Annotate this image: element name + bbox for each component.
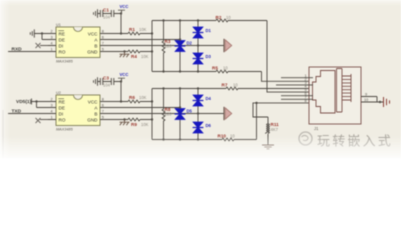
watermark logo <box>299 132 312 145</box>
svg-text:3: 3 <box>51 35 53 39</box>
svg-text:6: 6 <box>102 103 104 107</box>
wire row3 (B) <box>108 45 198 47</box>
svg-text:2: 2 <box>51 97 53 101</box>
svg-text:120: 120 <box>165 112 173 117</box>
junction row4/V1 (bottom) <box>151 118 153 120</box>
wire RJ45 pin8 net <box>253 103 313 117</box>
svg-text:10K: 10K <box>141 54 149 59</box>
junction row1/V1 <box>151 32 153 34</box>
net label VD5(1) at RE/DE tie <box>16 99 56 108</box>
earth E1 <box>224 39 232 52</box>
svg-text:10: 10 <box>364 98 368 102</box>
svg-text:D3: D3 <box>206 54 212 59</box>
svg-text:104: 104 <box>103 15 111 20</box>
wire V1 (left vertical) <box>151 21 153 72</box>
wire bottom-B joins pin8 net <box>256 103 258 140</box>
TVS D6 (right bottom bowtie, bottom) <box>192 122 211 141</box>
TVS D1 (right top bowtie) <box>192 19 211 71</box>
TVS D5 (left bowtie, bottom) <box>174 87 192 140</box>
svg-text:RO: RO <box>59 117 66 122</box>
power VCC (top) <box>118 4 128 13</box>
resistor R5 (series, bottom rail) <box>212 65 262 73</box>
resistor R3 (termination, vertical) <box>162 19 172 72</box>
svg-text:R6: R6 <box>129 95 135 100</box>
svg-text:GND: GND <box>87 117 98 122</box>
capacitor C1 <box>98 7 112 19</box>
junction bottom-B / pin8 net <box>255 102 257 104</box>
wire row3 (B, bottom) <box>108 113 198 115</box>
IC U1 MAX3485 <box>56 23 100 64</box>
ground GND2 (hatched) <box>120 120 130 126</box>
net label TXD <box>8 108 56 114</box>
svg-text:MAX3485: MAX3485 <box>56 60 74 64</box>
wire VCC rail down to pin8 row <box>120 14 122 34</box>
svg-text:5: 5 <box>102 115 104 119</box>
svg-text:10K: 10K <box>139 95 147 100</box>
svg-text:R7: R7 <box>222 82 228 87</box>
pin stubs left U1 with numbers 2,3,4,1 <box>48 29 56 51</box>
svg-text:C1: C1 <box>103 7 109 12</box>
resistor R6 <box>128 95 152 103</box>
svg-text:4K7: 4K7 <box>271 127 279 132</box>
svg-text:GND: GND <box>87 49 98 54</box>
svg-text:R4: R4 <box>131 54 137 59</box>
svg-text:R5: R5 <box>212 65 218 70</box>
ground G3 (rotated, left of C3) <box>94 77 98 85</box>
top rail wire (bottom channel, runs to RJ45 pin 4) <box>152 88 226 90</box>
wire row1 (VCC pin 8, bottom) <box>108 101 128 103</box>
svg-text:J1: J1 <box>314 126 319 131</box>
ground G1 (rotated, left of C1) <box>94 9 98 17</box>
wire RE/DE tie <box>34 34 56 40</box>
resistor R9 <box>128 118 152 127</box>
svg-text:4: 4 <box>51 109 53 113</box>
wire row2 (A) <box>108 39 180 41</box>
svg-text:RE: RE <box>59 99 65 104</box>
pin stubs left RJ45 <box>276 74 313 103</box>
resistor R10 (series, bottom-channel bottom rail) <box>218 133 257 141</box>
junction RE/DE <box>41 32 43 34</box>
no-connect X on RO <box>36 118 57 123</box>
svg-text:R1: R1 <box>129 27 135 32</box>
svg-text:R2: R2 <box>216 15 222 20</box>
svg-text:DI: DI <box>59 111 64 116</box>
resistor R11 (pulldown at RJ45) <box>265 117 279 145</box>
svg-text:D2: D2 <box>187 40 193 45</box>
svg-text:VD5(1): VD5(1) <box>16 99 32 105</box>
wire top-A to RJ45 pin5 <box>267 21 313 93</box>
svg-text:D4: D4 <box>206 96 212 101</box>
junction row4/gnd <box>123 50 125 52</box>
svg-text:104: 104 <box>103 83 111 88</box>
wire mid tap <box>198 45 224 47</box>
bottom rail wire (bottom channel) <box>152 139 222 141</box>
svg-text:4: 4 <box>51 41 53 45</box>
pin stubs right RJ45 (9,10 shield) <box>361 92 383 103</box>
svg-text:2: 2 <box>51 29 53 33</box>
svg-text:10: 10 <box>226 15 231 20</box>
power VCC (bottom) <box>118 72 128 81</box>
junction row1/V1 (bottom) <box>151 100 153 102</box>
pin stubs left U2 with numbers 2,3,4,1 <box>48 97 56 119</box>
svg-text:DI: DI <box>59 43 64 48</box>
svg-text:RE: RE <box>59 31 65 36</box>
svg-text:DE: DE <box>59 37 65 42</box>
svg-text:7: 7 <box>102 109 104 113</box>
ground GND3 <box>262 145 274 149</box>
svg-text:DE: DE <box>59 105 65 110</box>
svg-text:8: 8 <box>102 97 104 101</box>
svg-text:D5: D5 <box>187 108 193 113</box>
svg-text:1: 1 <box>51 47 53 51</box>
junction row1/VCC rail (bottom) <box>120 100 122 102</box>
svg-text:8: 8 <box>305 99 307 103</box>
junction row1/VCC rail <box>120 32 122 34</box>
wire row2 (A, bottom) <box>108 107 180 109</box>
wire mid tap (bottom) <box>198 113 224 115</box>
svg-text:C3: C3 <box>103 75 109 80</box>
pin stubs right U1 with numbers 8,6,7,5 <box>100 29 108 51</box>
ground G2 (rotated, at RE/DE) <box>30 29 34 37</box>
junction VCC/C2 <box>120 12 122 14</box>
TVS D2 (left bowtie) <box>174 19 192 72</box>
capacitor C4 <box>111 78 121 85</box>
svg-text:U2: U2 <box>56 91 61 95</box>
capacitor C2 <box>111 10 121 17</box>
svg-text:U1: U1 <box>56 23 61 27</box>
earth E3 (rotated, right of RJ45) <box>384 97 390 107</box>
svg-text:VCC: VCC <box>120 72 129 77</box>
ground GND1 (hatched) <box>120 52 130 58</box>
svg-text:B: B <box>94 43 97 48</box>
junction mid tap / row3 (bottom) <box>197 112 199 114</box>
net label RXD <box>8 46 56 52</box>
TVS D4 (right top bowtie, bottom) <box>192 87 211 139</box>
svg-text:VCC: VCC <box>88 99 98 104</box>
junction row4/V1 <box>151 50 153 52</box>
earth E2 <box>224 107 232 120</box>
svg-text:6: 6 <box>102 35 104 39</box>
svg-text:RO: RO <box>59 49 66 54</box>
svg-text:10K: 10K <box>141 122 149 127</box>
svg-text:D1: D1 <box>206 28 212 33</box>
svg-text:10: 10 <box>223 65 228 70</box>
junction VCC/C4 <box>120 80 122 82</box>
resistor R2 (series, top rail) <box>216 15 268 22</box>
TVS D3 (right bottom bowtie) <box>192 53 211 73</box>
wire row4 (GND pin 5) <box>108 51 128 53</box>
svg-text:VCC: VCC <box>88 31 98 36</box>
capacitor C3 <box>98 75 112 87</box>
wire row4 (GND, bottom) <box>108 119 128 121</box>
resistor R8 (termination, vertical, bottom) <box>162 87 172 140</box>
wire top-B to RJ45 pin2 <box>262 72 314 82</box>
resistor R1 <box>128 27 152 35</box>
svg-text:5: 5 <box>102 47 104 51</box>
svg-text:8: 8 <box>102 29 104 33</box>
junction mid tap / row3 <box>197 44 199 46</box>
svg-text:7: 7 <box>102 41 104 45</box>
wire V1 (left vertical, bottom) <box>151 89 153 140</box>
svg-text:10K: 10K <box>139 27 147 32</box>
edge fades (decorative) <box>2 110 4 158</box>
resistor R4 <box>128 50 152 59</box>
junction row4/gnd (bottom) <box>123 118 125 120</box>
RJ45 J1 <box>309 67 361 131</box>
no-connect X on DI <box>36 43 57 48</box>
IC U2 MAX3485 <box>56 91 100 132</box>
svg-text:D6: D6 <box>206 123 212 128</box>
svg-text:120: 120 <box>165 44 173 49</box>
svg-text:3: 3 <box>51 103 53 107</box>
TVS block rails: top rail wire <box>152 20 216 22</box>
wire VCC rail down to pin8 row <box>120 82 122 102</box>
bottom rail wire <box>152 71 216 73</box>
svg-text:10: 10 <box>233 82 238 87</box>
wire row1 (VCC pin 8) <box>108 33 128 35</box>
svg-text:MAX3485: MAX3485 <box>56 128 74 132</box>
svg-text:R9: R9 <box>131 122 137 127</box>
svg-text:1: 1 <box>51 115 53 119</box>
resistor R7 (series, bottom-channel top rail) <box>222 82 314 90</box>
svg-text:B: B <box>94 111 97 116</box>
pin stubs right U2 with numbers 8,6,7,5 <box>100 97 108 119</box>
svg-text:9: 9 <box>365 92 367 96</box>
